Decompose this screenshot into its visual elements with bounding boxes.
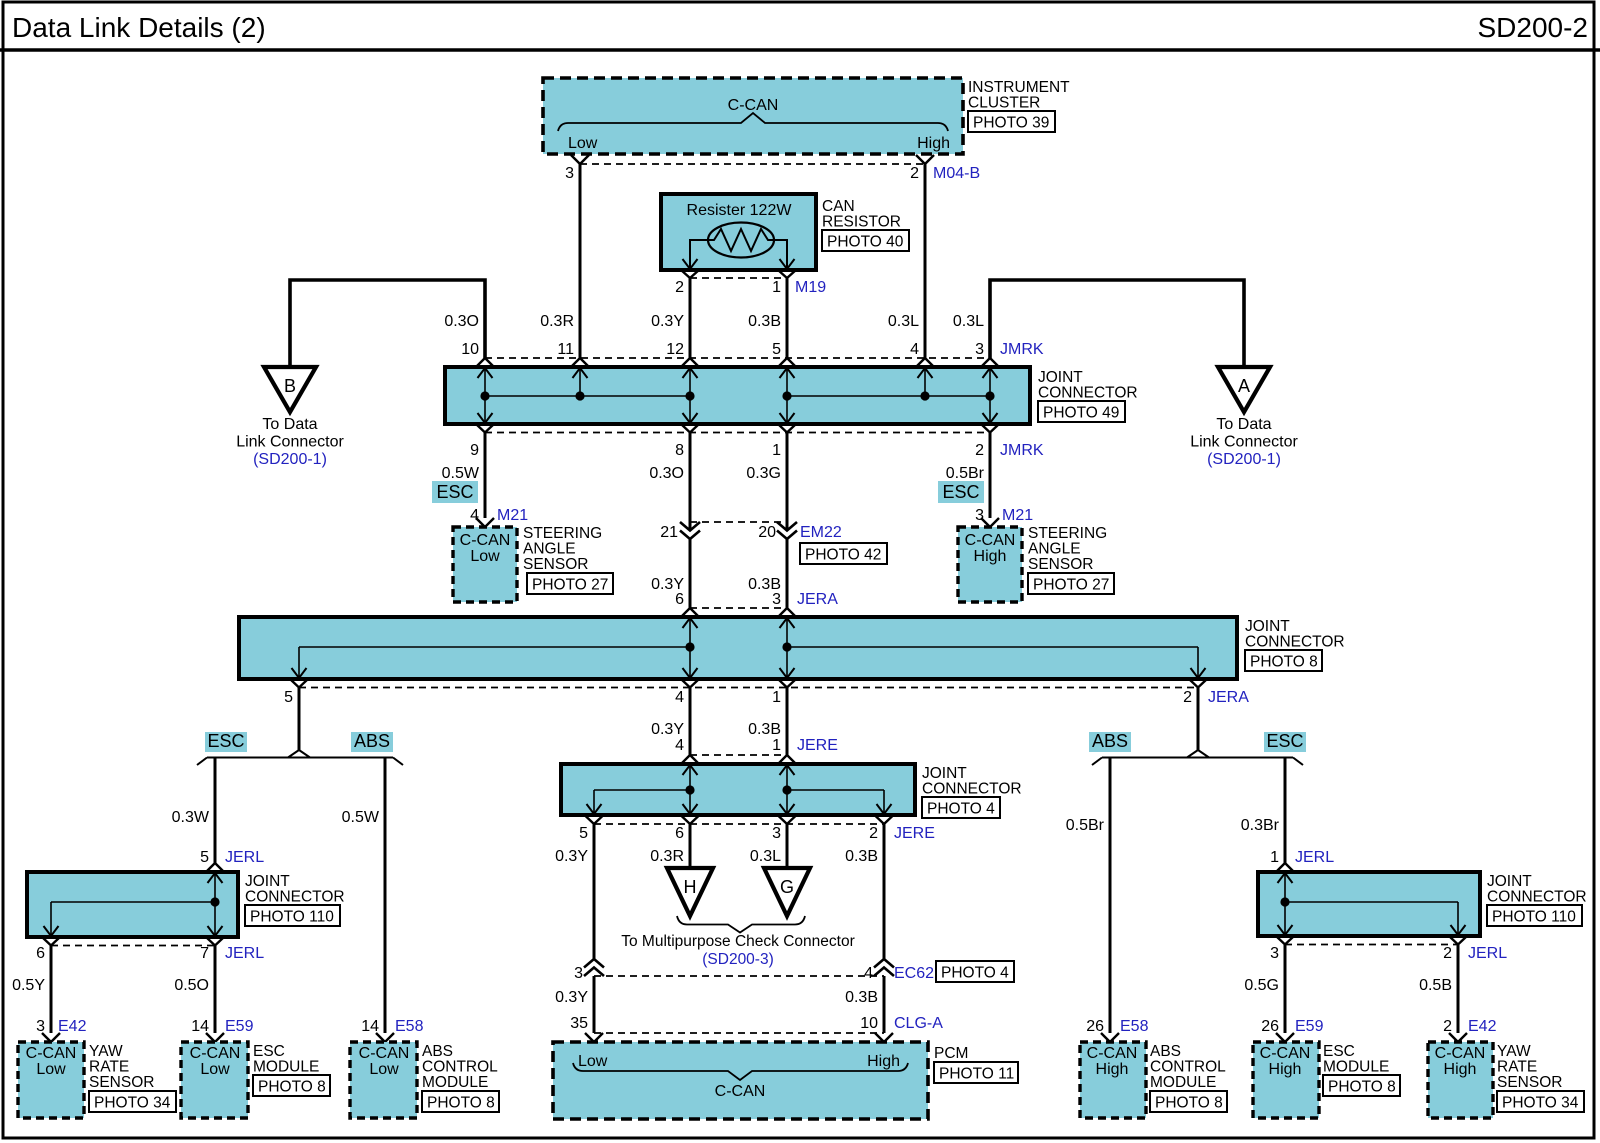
JERE bottom dashed line	[594, 823, 884, 825]
svg-text:ESC: ESC	[1266, 731, 1303, 751]
E58 right entry chevron	[1101, 1033, 1119, 1042]
svg-text:4: 4	[470, 507, 479, 524]
JERE internal line right	[787, 790, 884, 814]
PHOTO 27 box (left)	[527, 573, 613, 594]
connector name JERE (bottom)	[894, 825, 935, 842]
pin 3 label (JERL right)	[1270, 945, 1279, 962]
JERA internal line right	[787, 647, 1198, 678]
ABS control module label (right)	[1150, 1043, 1226, 1091]
PHOTO 34 box (right)	[1497, 1091, 1584, 1112]
split symbol left	[197, 750, 403, 765]
svg-text:E58: E58	[1120, 1018, 1149, 1035]
svg-text:1: 1	[772, 737, 781, 754]
svg-text:ABS: ABS	[422, 1043, 453, 1060]
triangle H multipurpose check	[667, 868, 713, 916]
wire label 0.3Br	[1241, 817, 1280, 834]
CAN resistor box	[661, 194, 816, 270]
JERL left entry arrow	[208, 873, 223, 902]
svg-text:(SD200-3): (SD200-3)	[702, 951, 774, 968]
pin 5 label (JMRK)	[772, 341, 781, 358]
svg-text:JERL: JERL	[1468, 945, 1507, 962]
svg-text:SENSOR: SENSOR	[89, 1074, 154, 1091]
svg-text:4: 4	[910, 341, 919, 358]
wire JERA pin2 down to split	[1197, 688, 1200, 751]
wire label 0.3B (PCM)	[845, 989, 878, 1006]
connector name JERL (right top)	[1295, 849, 1334, 866]
joint connector JERE PHOTO 4 box	[561, 764, 915, 815]
svg-text:C-CAN: C-CAN	[1435, 1045, 1486, 1062]
pin 1 label (M19)	[772, 279, 781, 296]
PCM brace	[573, 1063, 908, 1080]
svg-text:3: 3	[975, 507, 984, 524]
svg-text:1: 1	[772, 689, 781, 706]
svg-text:PHOTO 27: PHOTO 27	[1033, 577, 1109, 594]
svg-text:8: 8	[675, 442, 684, 459]
E58 left entry chevron	[376, 1033, 394, 1042]
PHOTO 4 box (EC62)	[936, 961, 1014, 982]
SD200-1 link text (left)	[253, 451, 327, 468]
svg-text:3: 3	[772, 591, 781, 608]
wire IC pin3 to JMRK pin11	[579, 164, 582, 358]
wire EC62 pin4 to PCM pin10	[883, 976, 886, 1033]
svg-text:7: 7	[200, 945, 209, 962]
E42 left entry chevron	[42, 1033, 60, 1042]
PHOTO 8 box (JERA)	[1245, 650, 1322, 671]
svg-text:0.5W: 0.5W	[342, 809, 380, 826]
connector name JERA (bottom)	[1208, 689, 1249, 706]
SD200-3 link text	[702, 951, 774, 968]
wire label 0.3B (EM22)	[748, 576, 781, 593]
svg-text:E59: E59	[1295, 1018, 1324, 1035]
PCM pin10 entry chevron	[875, 1033, 893, 1042]
connector M04-B pin 2 exit chevron	[916, 155, 934, 164]
JMRK bottom dashed line	[485, 432, 990, 434]
pin 2 label (M19)	[675, 279, 684, 296]
svg-text:ESC: ESC	[1323, 1043, 1355, 1060]
wire JERL pin7 to E59 pin14	[214, 946, 217, 1034]
svg-text:0.3B: 0.3B	[845, 989, 878, 1006]
svg-text:5: 5	[284, 689, 293, 706]
svg-text:(SD200-1): (SD200-1)	[1207, 451, 1281, 468]
svg-text:Low: Low	[578, 1053, 608, 1070]
pin 9 label	[470, 442, 479, 459]
svg-text:PHOTO 4: PHOTO 4	[927, 801, 995, 818]
E59 right entry chevron	[1276, 1033, 1294, 1042]
svg-text:ABS: ABS	[354, 731, 390, 751]
svg-text:PCM: PCM	[934, 1045, 968, 1062]
connector name JERL (right bottom)	[1468, 945, 1507, 962]
svg-text:ABS: ABS	[1092, 731, 1128, 751]
svg-text:JOINT: JOINT	[245, 873, 290, 890]
JERA top entry arrows	[683, 618, 795, 647]
joint connector label (PHOTO 4)	[922, 765, 1022, 798]
PCM High label	[867, 1053, 900, 1070]
connector name EM22	[800, 524, 842, 541]
svg-text:C-CAN: C-CAN	[26, 1045, 77, 1062]
svg-text:MODULE: MODULE	[253, 1059, 319, 1076]
svg-text:JOINT: JOINT	[1038, 369, 1083, 386]
svg-text:RESISTOR: RESISTOR	[822, 214, 901, 231]
yaw rate sensor (left) C-CAN Low box	[18, 1042, 84, 1118]
svg-text:PHOTO 34: PHOTO 34	[1502, 1095, 1579, 1112]
svg-text:PHOTO 39: PHOTO 39	[973, 115, 1049, 132]
ESC highlight (left split)	[205, 731, 247, 752]
svg-text:JERE: JERE	[894, 825, 935, 842]
svg-text:CONNECTOR: CONNECTOR	[922, 781, 1022, 798]
ESC module (right) C-CAN High box	[1253, 1042, 1319, 1118]
svg-text:0.3Y: 0.3Y	[651, 313, 684, 330]
ESC module label (left)	[253, 1043, 319, 1076]
svg-text:C-CAN: C-CAN	[359, 1045, 410, 1062]
wire JERL pin3 to E59 pin26	[1284, 945, 1287, 1034]
svg-text:PHOTO 27: PHOTO 27	[532, 577, 608, 594]
JERA bottom exit chevrons	[290, 679, 1207, 688]
pin 1 label (JERA bottom)	[772, 689, 781, 706]
pin 1 label (JERL right)	[1270, 849, 1279, 866]
svg-text:PHOTO 8: PHOTO 8	[1328, 1079, 1396, 1096]
svg-text:JOINT: JOINT	[922, 765, 967, 782]
pin 11 label	[557, 341, 574, 358]
svg-text:CONNECTOR: CONNECTOR	[1487, 889, 1587, 906]
svg-text:2: 2	[1183, 689, 1192, 706]
JERL left junction dot	[210, 897, 219, 906]
PHOTO 110 box (right)	[1487, 905, 1582, 926]
connector name E42 (right)	[1468, 1018, 1497, 1035]
svg-text:10: 10	[461, 341, 479, 358]
svg-text:(SD200-1): (SD200-1)	[253, 451, 327, 468]
pin 20 label	[758, 524, 776, 541]
svg-text:RATE: RATE	[1497, 1059, 1537, 1076]
svg-text:CAN: CAN	[822, 198, 855, 215]
wire label 0.3B (JERE)	[748, 721, 781, 738]
C-CAN High text (steering right)	[965, 532, 1016, 565]
E59 left entry chevron	[206, 1033, 224, 1042]
svg-text:35: 35	[570, 1015, 588, 1032]
svg-text:0.5Br: 0.5Br	[946, 465, 985, 482]
svg-text:YAW: YAW	[89, 1043, 123, 1060]
svg-text:Link Connector: Link Connector	[236, 434, 344, 451]
JMRK internal bus left	[485, 395, 690, 397]
svg-text:CONNECTOR: CONNECTOR	[1245, 634, 1345, 651]
svg-text:M21: M21	[497, 507, 528, 524]
ESC module (left) C-CAN Low C-CAN text	[190, 1045, 241, 1078]
connector name JERE (top)	[797, 737, 838, 754]
pin 2 label (JERL right)	[1443, 945, 1452, 962]
svg-text:M21: M21	[1002, 507, 1033, 524]
JERL right exit chevrons	[1276, 936, 1467, 945]
svg-text:JERL: JERL	[1295, 849, 1334, 866]
svg-text:0.3L: 0.3L	[750, 848, 781, 865]
joint connector JERA PHOTO 8 box	[239, 617, 1237, 679]
pin 2 label (M04-B)	[910, 165, 919, 182]
pin 3 label (EC62)	[574, 965, 583, 982]
PHOTO 8 box (ESC right)	[1323, 1075, 1400, 1096]
pin 26 label (E59 right)	[1261, 1018, 1279, 1035]
wire label 0.3R (pin11)	[540, 313, 574, 330]
svg-text:2: 2	[869, 825, 878, 842]
svg-text:PHOTO 34: PHOTO 34	[94, 1095, 171, 1112]
JERA internal line left	[299, 647, 690, 678]
wire JERE pin2 to EC62 pin4	[883, 824, 886, 959]
JERL left entry chevron	[206, 863, 224, 872]
pin 14 label (E58 left)	[361, 1018, 379, 1035]
To Multipurpose Check Connector text	[621, 933, 854, 950]
instrument cluster brace	[558, 113, 948, 131]
pin 5 label (JERL)	[200, 849, 209, 866]
svg-text:0.3Y: 0.3Y	[555, 848, 588, 865]
JERL right internal line	[1285, 902, 1458, 935]
connector name M19	[795, 279, 826, 296]
svg-text:To Multipurpose Check Connecto: To Multipurpose Check Connector	[621, 933, 854, 950]
svg-text:PHOTO 110: PHOTO 110	[250, 909, 334, 926]
wire label 0.3Y (EM22)	[651, 576, 684, 593]
wire label 0.5Br (right)	[1066, 817, 1105, 834]
svg-text:B: B	[284, 376, 296, 396]
svg-text:11: 11	[557, 341, 574, 358]
svg-text:ANGLE: ANGLE	[523, 541, 576, 558]
title divider line	[0, 48, 1600, 52]
connector name E58 (left)	[395, 1018, 424, 1035]
pin 3 label (E42 left)	[36, 1018, 45, 1035]
connector name M21 (left)	[497, 507, 528, 524]
svg-text:MODULE: MODULE	[422, 1074, 488, 1091]
svg-text:High: High	[867, 1053, 900, 1070]
inline connector EC62 dashed line	[594, 975, 884, 977]
wire JERE pin5 to EC62 pin3	[593, 824, 596, 959]
triangle B to data link connector	[264, 367, 316, 412]
svg-text:High: High	[1269, 1061, 1302, 1078]
svg-text:0.3O: 0.3O	[649, 465, 684, 482]
wire label 0.5Br	[946, 465, 985, 482]
ESC highlight (left)	[432, 481, 478, 503]
svg-text:2: 2	[975, 442, 984, 459]
svg-text:PHOTO 40: PHOTO 40	[827, 234, 904, 251]
svg-text:YAW: YAW	[1497, 1043, 1531, 1060]
svg-text:6: 6	[36, 945, 45, 962]
wire label 0.3O (pin10)	[444, 313, 479, 330]
yaw rate sensor (right) C-CAN High C-CAN text	[1435, 1045, 1486, 1078]
svg-text:21: 21	[660, 524, 678, 541]
svg-text:0.5B: 0.5B	[1419, 977, 1452, 994]
svg-text:PHOTO 4: PHOTO 4	[941, 965, 1009, 982]
instrument cluster label	[968, 79, 1070, 112]
wire JMRK pin10 up-left to triangle B	[290, 280, 485, 367]
svg-text:ESC: ESC	[253, 1043, 285, 1060]
pin 3 label (JERE bottom)	[772, 825, 781, 842]
resistor lead left	[690, 240, 708, 269]
PHOTO 11 box	[934, 1062, 1018, 1083]
svg-text:0.3R: 0.3R	[540, 313, 574, 330]
svg-text:Low: Low	[568, 135, 598, 152]
svg-text:PHOTO 8: PHOTO 8	[1155, 1095, 1223, 1112]
instrument cluster Low label	[568, 135, 598, 152]
JERL right junction dot	[1280, 897, 1289, 906]
svg-text:MODULE: MODULE	[1323, 1059, 1389, 1076]
EC62 pin4 chevrons	[874, 959, 894, 976]
svg-text:H: H	[684, 877, 697, 897]
joint connector JMRK PHOTO 49 box	[445, 367, 1030, 424]
svg-text:PHOTO 8: PHOTO 8	[427, 1095, 495, 1112]
ABS control module (left) C-CAN Low box	[350, 1042, 417, 1118]
JERL right exit arrows	[1278, 902, 1466, 935]
svg-text:C-CAN: C-CAN	[460, 532, 511, 549]
svg-text:C-CAN: C-CAN	[728, 97, 779, 114]
svg-text:High: High	[1096, 1061, 1129, 1078]
pin 10 label	[461, 341, 479, 358]
svg-text:Link Connector: Link Connector	[1190, 434, 1298, 451]
svg-text:PHOTO 11: PHOTO 11	[939, 1066, 1014, 1083]
triangle G multipurpose check	[764, 868, 810, 916]
wire label 0.3W	[172, 809, 210, 826]
wire label 0.3R (pin6)	[650, 848, 684, 865]
JERL right entry chevron	[1276, 863, 1294, 872]
svg-text:0.3R: 0.3R	[650, 848, 684, 865]
svg-text:JERE: JERE	[797, 737, 838, 754]
wire EM22 pin21 to JERA pin6	[689, 539, 692, 608]
svg-text:ABS: ABS	[1150, 1043, 1181, 1060]
EC62 pin3 chevrons	[584, 959, 604, 976]
pin 4 label (JERE)	[675, 737, 684, 754]
svg-text:3: 3	[772, 825, 781, 842]
JMRK bottom exit arrows	[478, 396, 998, 423]
PCM entry dashed line	[594, 1032, 884, 1034]
instrument cluster PHOTO 39 box	[968, 111, 1055, 132]
JERL left exit arrows	[44, 902, 223, 936]
pin 3 label (JERA)	[772, 591, 781, 608]
JERL right entry arrow	[1278, 873, 1293, 902]
EM22 pin21 chevrons	[680, 522, 700, 539]
wire JERE pin6 to triangle H	[689, 824, 692, 868]
svg-text:PHOTO 49: PHOTO 49	[1043, 405, 1119, 422]
wire label 0.5O	[174, 977, 209, 994]
svg-text:Low: Low	[36, 1061, 66, 1078]
svg-text:4: 4	[675, 737, 684, 754]
svg-text:5: 5	[200, 849, 209, 866]
connector name E59 (right)	[1295, 1018, 1324, 1035]
svg-text:EM22: EM22	[800, 524, 842, 541]
svg-text:E42: E42	[1468, 1018, 1497, 1035]
svg-text:4: 4	[675, 689, 684, 706]
svg-text:12: 12	[666, 341, 684, 358]
JERE top entry chevrons	[681, 755, 796, 764]
ESC module (right) C-CAN High C-CAN text	[1260, 1045, 1311, 1078]
svg-text:High: High	[917, 135, 950, 152]
pin 21 label	[660, 524, 678, 541]
wire label 0.3Y (pin5)	[555, 848, 588, 865]
pin 4 label (EC62)	[864, 965, 873, 982]
wire JERA pin5 down to split	[298, 688, 301, 751]
title: Data Link Details (2)	[12, 12, 266, 43]
svg-text:3: 3	[36, 1018, 45, 1035]
svg-text:10: 10	[860, 1015, 878, 1032]
instrument cluster High label	[917, 135, 950, 152]
pin 6 label (JERL)	[36, 945, 45, 962]
connector name JMRK (bottom)	[1000, 442, 1044, 459]
steering angle sensor label (right)	[1028, 525, 1107, 573]
wire label 0.3L (pin3)	[750, 848, 781, 865]
JERE internal line left	[594, 790, 690, 814]
connector name JMRK (top)	[1000, 341, 1044, 358]
C-CAN Low text (steering left)	[460, 532, 511, 565]
connector M04-B dashed line	[580, 163, 925, 165]
svg-text:C-CAN: C-CAN	[965, 532, 1016, 549]
pin 26 label (E58 right)	[1086, 1018, 1104, 1035]
svg-text:JERA: JERA	[797, 591, 838, 608]
joint connector label (PHOTO 8)	[1245, 618, 1345, 651]
JERL left exit chevrons	[42, 937, 224, 946]
split symbol right	[1092, 750, 1303, 765]
connector M19 dashed line	[690, 277, 787, 279]
svg-text:CONTROL: CONTROL	[1150, 1059, 1226, 1076]
instrument cluster C-CAN text	[728, 97, 779, 114]
JERE bottom exit arrows	[587, 790, 892, 814]
PHOTO 8 box (ESC left)	[253, 1075, 330, 1096]
svg-text:ESC: ESC	[436, 482, 473, 502]
svg-text:M04-B: M04-B	[933, 165, 980, 182]
ABS highlight (right split)	[1089, 731, 1131, 752]
wire label 0.5G	[1244, 977, 1279, 994]
svg-text:26: 26	[1086, 1018, 1104, 1035]
wire label 0.3Y (JERE)	[651, 721, 684, 738]
wire label 0.3Y (pin12)	[651, 313, 684, 330]
wire JERL pin6 to E42 pin3	[50, 946, 53, 1034]
ESC module label (right)	[1323, 1043, 1389, 1076]
svg-text:14: 14	[191, 1018, 209, 1035]
wire JMRK pin1 to EM22 pin20	[786, 433, 789, 532]
yaw rate sensor label (right)	[1497, 1043, 1562, 1091]
svg-text:JOINT: JOINT	[1245, 618, 1290, 635]
pin 4 label (JERA bottom)	[675, 689, 684, 706]
svg-text:0.5Y: 0.5Y	[12, 977, 45, 994]
resistor lead right arrowhead	[780, 259, 795, 269]
svg-text:G: G	[780, 877, 794, 897]
svg-text:STEERING: STEERING	[1028, 525, 1107, 542]
M21 left entry chevron	[476, 518, 494, 527]
PCM Low label	[578, 1053, 608, 1070]
svg-text:CLUSTER: CLUSTER	[968, 95, 1040, 112]
svg-text:0.3B: 0.3B	[748, 721, 781, 738]
JMRK internal bus right	[787, 395, 990, 397]
JERA bottom dashed line	[299, 687, 1198, 689]
wire JERL pin2 to E42 pin2	[1457, 945, 1460, 1034]
PHOTO 8 box (ABS right)	[1150, 1091, 1227, 1112]
EM22 pin20 chevrons	[777, 522, 797, 539]
svg-text:ANGLE: ANGLE	[1028, 541, 1081, 558]
svg-text:High: High	[974, 548, 1007, 565]
connector name JERL (left bottom)	[225, 945, 264, 962]
svg-text:0.5O: 0.5O	[174, 977, 209, 994]
svg-text:JOINT: JOINT	[1487, 873, 1532, 890]
svg-text:0.3L: 0.3L	[953, 313, 984, 330]
JMRK junction dots	[480, 391, 994, 400]
pin 4 label (M21)	[470, 507, 479, 524]
JERA top entry chevrons	[681, 608, 796, 617]
svg-text:Low: Low	[470, 548, 500, 565]
svg-text:RATE: RATE	[89, 1059, 129, 1076]
JERE bottom exit chevrons	[585, 816, 893, 825]
svg-text:Low: Low	[200, 1061, 230, 1078]
svg-text:9: 9	[470, 442, 479, 459]
wire label 0.5Y	[12, 977, 45, 994]
svg-text:E59: E59	[225, 1018, 254, 1035]
svg-text:High: High	[1444, 1061, 1477, 1078]
pin 8 label	[675, 442, 684, 459]
JERE top dashed line	[690, 754, 787, 756]
svg-text:4: 4	[864, 965, 873, 982]
svg-text:0.3Br: 0.3Br	[1241, 817, 1280, 834]
joint connector JERL PHOTO 110 box (left)	[27, 872, 238, 937]
svg-text:2: 2	[675, 279, 684, 296]
